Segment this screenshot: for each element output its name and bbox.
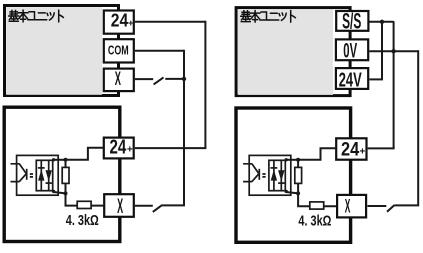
svg-text:X: X: [117, 194, 123, 218]
wire 0V to far rail: [369, 50, 418, 52]
node resistor bottom (right): [296, 191, 300, 195]
wire 24+ to right rail: [135, 21, 205, 23]
vertical resistor body (left): [62, 167, 69, 183]
vertical resistor wire (right): [297, 160, 299, 194]
driver box X (left bottom): [104, 194, 134, 218]
photocoupler outer box (right): [249, 155, 291, 195]
wire node to driver 24+ (step): [66, 148, 104, 160]
rail a vertical S/S to 24V: [381, 22, 383, 80]
far rail vertical (right diagram): [394, 50, 418, 205]
resistor 4.3k body (left): [77, 201, 91, 208]
junction mid rail / switch: [182, 77, 186, 81]
wire rail b to driver 24+ (right): [368, 147, 395, 149]
PLC unit box (left, 基本ユニット): [5, 6, 119, 96]
resistor 4.3k body (right): [310, 202, 324, 209]
terminal box 24+ (left top): [104, 10, 134, 34]
node resistor bottom: [64, 191, 68, 195]
node coupler bottom-right (right): [285, 190, 288, 193]
node resistor top (right): [296, 158, 300, 162]
input circuit box (right bottom): [236, 108, 351, 242]
wire 24V to rail a: [369, 78, 383, 80]
switch contact (left bottom): [153, 205, 162, 212]
light coupling dashes (right): [262, 174, 265, 177]
wire node to 4.3k resistor: [66, 193, 105, 205]
PLC unit box (right, 基本ユニット): [236, 8, 350, 96]
driver box 24+ (left bottom): [104, 136, 134, 159]
node coupler top-right: [52, 158, 55, 161]
svg-text:+: +: [359, 147, 365, 158]
svg-text:24V: 24V: [339, 69, 362, 92]
terminal box S/S (right): [336, 9, 368, 34]
label 基本ユニット (left): [9, 10, 64, 21]
svg-text:S/S: S/S: [342, 9, 361, 34]
driver box X (right bottom): [337, 195, 366, 218]
wire coupler to resistor node bottom (right): [286, 192, 298, 193]
wire S/S to rail b: [370, 21, 394, 23]
LED cathode bar (right): [258, 169, 260, 180]
photocoupler outer box (left): [17, 155, 59, 195]
bridge diode box (right): [269, 160, 285, 190]
wire driver X to switch (left bottom): [135, 205, 153, 207]
driver box 24+ (right bottom): [336, 138, 366, 160]
node coupler top-right (right): [285, 158, 288, 161]
label 基本ユニット (right): [241, 11, 295, 22]
wire switch to mid rail: [165, 78, 184, 80]
svg-text:24: 24: [341, 139, 359, 161]
svg-text:X: X: [115, 68, 121, 90]
light coupling dashes (left): [30, 174, 33, 177]
terminal box X (left top): [104, 68, 134, 91]
svg-text:0V: 0V: [343, 40, 357, 63]
LED cathode bar (left): [26, 169, 28, 180]
junction S/S / rail a: [380, 20, 384, 24]
LED triangle (left): [19, 164, 26, 182]
wire node to driver 24+ step (right): [298, 148, 336, 160]
diode down (left): [46, 160, 52, 190]
photocoupler input stubs (right): [243, 164, 252, 182]
wire driver X to switch (right): [368, 205, 387, 207]
diode down (right): [278, 160, 284, 190]
node coupler bottom-right: [52, 190, 55, 193]
terminal box 24V (right): [336, 68, 368, 92]
rail b vertical (right diagram): [393, 21, 395, 148]
wire X to switch: [135, 78, 153, 80]
svg-text:4. 3kΩ: 4. 3kΩ: [298, 213, 331, 229]
svg-text:COM: COM: [108, 43, 129, 58]
wire node to 4.3k resistor (right): [298, 193, 337, 206]
wire rail to driver 24+: [135, 147, 207, 149]
wire coupler to resistor node (top): [54, 159, 66, 161]
wire coupler to resistor node top (right): [286, 159, 298, 161]
diode up (right): [271, 160, 278, 190]
node resistor top: [64, 158, 68, 162]
input circuit box (left bottom): [4, 107, 120, 241]
svg-text:24: 24: [110, 136, 127, 159]
junction rail b / 0V wire: [391, 49, 395, 53]
svg-text:24: 24: [111, 10, 129, 31]
right rail vertical (left diagram): [204, 21, 206, 148]
svg-text:+: +: [128, 18, 134, 29]
svg-text:X: X: [345, 196, 351, 217]
LED triangle (right): [252, 164, 259, 182]
wire COM to mid rail: [135, 50, 184, 52]
terminal box COM (left): [104, 39, 134, 62]
switch contact (left top): [154, 77, 164, 84]
vertical resistor body (right): [295, 167, 302, 183]
mid rail vertical (left diagram): [162, 50, 185, 206]
switch contact (right bottom): [387, 205, 394, 212]
wire coupler to resistor node (bottom): [54, 192, 66, 193]
bridge diode box (left): [36, 160, 52, 190]
diode up (left): [38, 160, 45, 190]
vertical resistor wire (left): [65, 160, 67, 194]
svg-text:+: +: [127, 144, 133, 155]
photocoupler input stubs (left): [11, 164, 20, 182]
svg-text:4. 3kΩ: 4. 3kΩ: [66, 213, 99, 229]
terminal box 0V (right): [336, 39, 368, 62]
